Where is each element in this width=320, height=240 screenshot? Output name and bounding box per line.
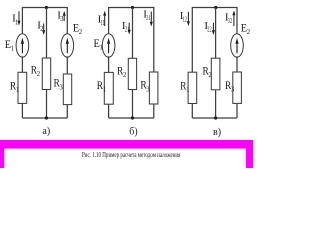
white caption panel: [4, 149, 246, 168]
wire: bottom node wire of circuit (a): [22, 117, 67, 119]
current arrow I22 (circuit v, down): [212, 23, 215, 35]
wire: circuit (b) left branch, R1 to bottom wire: [108, 104, 110, 118]
label E1 (circuit b): [94, 36, 103, 52]
current arrow I21 (circuit b, down): [128, 23, 131, 35]
wire: circuit (a) left branch, top wire to E1: [21, 7, 23, 35]
label I21 (circuit b): [122, 20, 129, 34]
current arrow I32 (circuit v, up): [232, 10, 235, 26]
label R1 (circuit b): [97, 78, 106, 94]
label v) sub-figure caption: [213, 127, 221, 138]
label R1 (circuit v): [180, 79, 189, 95]
node: bottom junction of circuit (b): [131, 116, 134, 119]
label I11 (circuit b): [98, 14, 105, 28]
node: top junction of circuit (a): [45, 6, 48, 9]
EMF source E2 (circuit a): [61, 34, 74, 58]
wire: circuit (b) right branch, top wire to R3: [153, 7, 155, 72]
label I3 (circuit a): [57, 10, 64, 24]
current arrow I12 (circuit v, down): [187, 12, 190, 26]
caption text: Ris. 1.10 Primer rascheta metodom nalozheniya: [82, 152, 181, 159]
wire: circuit (a) middle branch, top wire to R2: [46, 8, 48, 59]
wire: circuit (a) left branch, E1 to R1: [21, 56, 23, 72]
wire: bottom node wire of circuit (v): [192, 117, 237, 119]
wire: circuit (a) middle branch, R2 to bottom wire: [46, 90, 48, 119]
label R2 (circuit b): [117, 64, 127, 80]
wire: circuit (v) middle branch, R2 to bottom wire: [215, 90, 217, 118]
current arrow I2 (circuit a, down): [42, 24, 45, 36]
label I22 (circuit v): [204, 20, 212, 34]
label I1 (circuit a): [12, 13, 18, 27]
resistor R2 (circuit a): [42, 58, 50, 90]
wire: circuit (v) right branch, R3 to bottom wire: [236, 103, 238, 118]
resistor R3 (circuit v): [233, 72, 242, 103]
magenta caption frame: [0, 140, 253, 168]
current arrow I11 (circuit b, up): [103, 11, 106, 26]
resistor R1 (circuit a): [18, 72, 27, 103]
current arrow I3 (circuit a, up): [63, 11, 66, 21]
wire: circuit (a) right branch, E2 to R3: [66, 56, 68, 74]
label R2 (circuit v): [203, 63, 213, 79]
node: bottom junction of circuit (v): [214, 116, 217, 119]
label I32 (circuit v): [225, 11, 233, 25]
label R1 (circuit a): [10, 79, 19, 95]
node: top junction of circuit (v): [214, 6, 217, 9]
wire: circuit (b) middle branch, top wire to R2: [132, 8, 134, 59]
label E1 (circuit a): [5, 37, 14, 53]
label R3 (circuit a): [54, 76, 64, 92]
EMF source E1 (circuit a): [16, 34, 29, 58]
label I12 (circuit v): [180, 10, 188, 24]
svg-text:б): б): [129, 127, 137, 138]
label R3 (circuit b): [140, 78, 150, 94]
label b) sub-figure caption: [129, 127, 137, 138]
resistor R2 (circuit b): [128, 58, 136, 89]
wire: top node wire of circuit (a): [22, 7, 67, 9]
label R2 (circuit a): [31, 63, 41, 79]
label E2 (circuit a): [73, 21, 83, 37]
label I31 (circuit b): [143, 9, 150, 23]
current arrow I1 (circuit a, down): [18, 11, 21, 25]
wire: circuit (v) right branch, top wire to E2: [236, 7, 238, 35]
wire: circuit (v) right branch, E2 to R3: [236, 56, 238, 72]
svg-text:а): а): [42, 126, 50, 137]
current arrow I31 (circuit b, down): [150, 12, 153, 27]
node: bottom junction of circuit (a): [45, 116, 48, 119]
resistor R3 (circuit a): [63, 74, 71, 105]
wire: bottom node wire of circuit (b): [109, 117, 154, 119]
wire: circuit (b) left branch, E1 to R1: [108, 56, 110, 72]
wire: circuit (a) right branch, R3 to bottom wire: [66, 105, 68, 118]
label R3 (circuit v): [225, 78, 235, 94]
wire: top node wire of circuit (b): [109, 7, 154, 9]
EMF source E2 (circuit v): [231, 34, 244, 58]
wire: circuit (b) left branch, top wire to E1: [108, 7, 110, 35]
wire: circuit (v) middle branch, top wire to R2: [215, 8, 217, 59]
resistor R1 (circuit v): [188, 72, 197, 103]
wire: circuit (b) right branch, R3 to bottom wire: [153, 104, 155, 118]
wire: circuit (a) left branch, R1 to bottom wire: [21, 103, 23, 118]
resistor R2 (circuit v): [211, 58, 220, 90]
wire: circuit (v) left branch, top wire to R1: [191, 7, 193, 72]
wire: top node wire of circuit (v): [192, 7, 237, 9]
wire: circuit (a) right branch, top wire to E2: [66, 7, 68, 35]
label E2 (circuit v): [241, 21, 251, 37]
wire: circuit (v) left branch, R1 to bottom wire: [191, 104, 193, 119]
label I2 (circuit a): [37, 20, 44, 34]
resistor R3 (circuit b): [149, 72, 158, 104]
wire: circuit (b) middle branch, R2 to bottom wire: [132, 90, 134, 119]
svg-text:в): в): [213, 127, 221, 138]
node: top junction of circuit (b): [131, 6, 134, 9]
EMF source E1 (circuit b): [102, 34, 115, 58]
resistor R1 (circuit b): [104, 72, 113, 104]
label a) sub-figure caption: [42, 126, 50, 137]
svg-text:Рис. 1.10 Пример расчета метод: Рис. 1.10 Пример расчета методом наложен…: [82, 152, 181, 159]
